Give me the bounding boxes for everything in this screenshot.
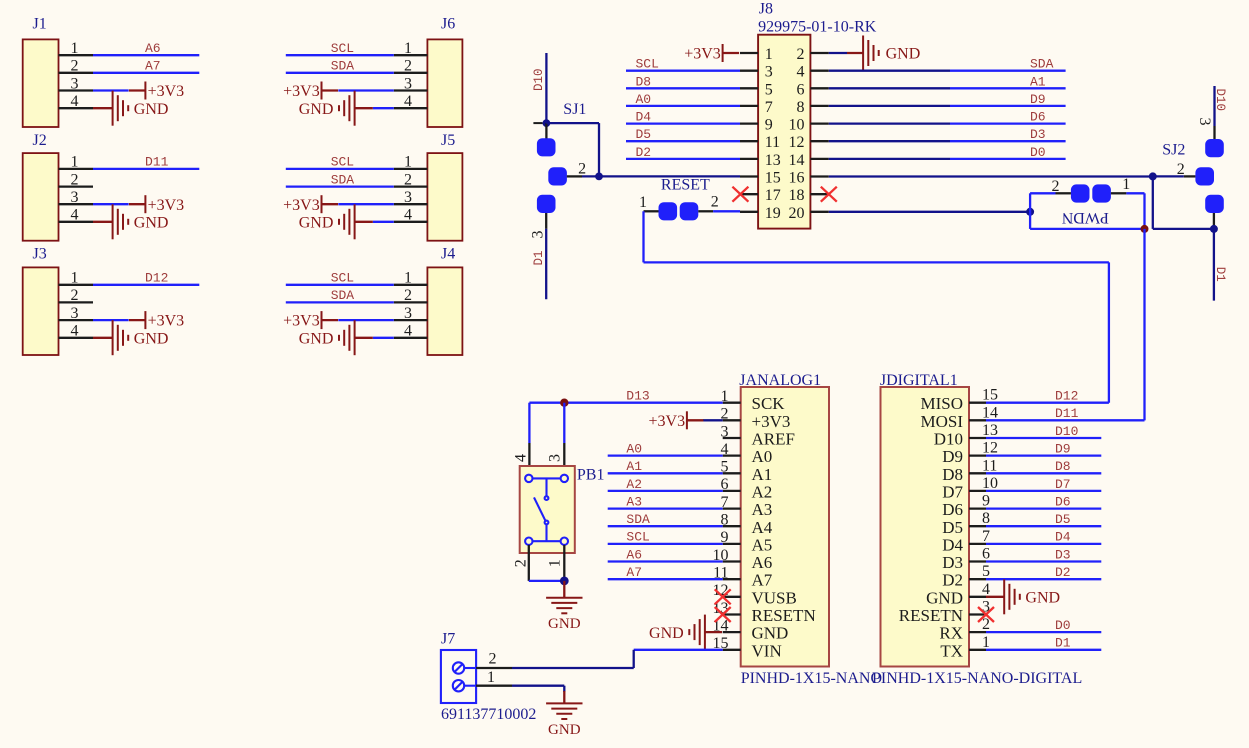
wire D8 (J8 pin 5) <box>626 87 740 89</box>
svg-text:4: 4 <box>797 64 805 81</box>
svg-text:PB1: PB1 <box>577 467 605 484</box>
svg-text:D0: D0 <box>1055 618 1071 633</box>
supply +3V3 (J8 pin 1) <box>684 44 739 63</box>
supply +3V3 (J3 pin 3) <box>129 311 184 330</box>
svg-text:1: 1 <box>71 154 79 171</box>
svg-text:14: 14 <box>982 404 998 421</box>
svg-text:J1: J1 <box>33 15 47 32</box>
svg-text:D6: D6 <box>1055 494 1071 509</box>
svg-text:1: 1 <box>1122 176 1130 193</box>
svg-text:3: 3 <box>765 64 773 81</box>
svg-text:GND: GND <box>752 624 789 643</box>
wire A1 (J8 pin 6) <box>829 87 950 89</box>
supply +3V3 (J1 pin 3) <box>129 82 184 101</box>
svg-text:4: 4 <box>71 207 79 224</box>
svg-text:+3V3: +3V3 <box>283 197 320 214</box>
SJ2 pad middle stub <box>1184 175 1196 177</box>
svg-text:15: 15 <box>765 170 781 187</box>
svg-text:D0: D0 <box>1030 145 1046 160</box>
SJ1 pad 2 stub <box>567 175 582 177</box>
wire D11 (JDIGITAL1 MOSI) <box>986 419 1145 421</box>
junction (PWDN left) <box>1026 208 1034 216</box>
svg-text:A0: A0 <box>636 92 652 107</box>
supply +3V3 (J6 pin 3) <box>283 82 338 101</box>
svg-text:D11: D11 <box>1055 406 1079 421</box>
wire +3V3 (J6 pin 3) <box>338 89 394 91</box>
svg-text:D1: D1 <box>1055 636 1071 651</box>
svg-text:D2: D2 <box>942 571 963 590</box>
PB1 pin 3 stub <box>563 443 565 475</box>
svg-text:D8: D8 <box>1055 459 1071 474</box>
wire RESET pad2 to J8 pin 19 <box>713 210 740 212</box>
wire SDA (JANALOG1 pin 8) <box>608 525 723 527</box>
wire D9 (JDIGITAL1 D9) <box>986 454 1101 456</box>
svg-text:SDA: SDA <box>331 59 355 74</box>
connector J3 <box>23 246 93 356</box>
svg-text:A6: A6 <box>626 547 642 562</box>
wire J8 pin 16 to SJ2 <box>829 175 1153 177</box>
wire D4 (J8 pin 9) <box>626 122 740 124</box>
wire D10 (JDIGITAL1 D10) <box>986 437 1101 439</box>
svg-text:13: 13 <box>982 422 998 439</box>
svg-text:12: 12 <box>789 134 805 151</box>
svg-text:2: 2 <box>1052 178 1060 195</box>
svg-text:2: 2 <box>578 160 586 177</box>
wire A7 (JANALOG1 pin 11) <box>608 578 723 580</box>
wire +3V3 (J4 pin 3) <box>338 319 394 321</box>
wire D10 (to SJ1 pin 1) <box>545 53 547 123</box>
wire +3V3 (J2 pin 3) <box>93 203 129 205</box>
wire SCL (J5 pin 1) <box>286 168 394 170</box>
connector JANALOG1 <box>713 372 883 687</box>
svg-text:PINHD-1X15-NANO-DIGITAL: PINHD-1X15-NANO-DIGITAL <box>872 670 1082 687</box>
svg-text:D6: D6 <box>942 500 963 519</box>
wire +3V3 (J5 pin 3) <box>338 203 394 205</box>
wire VIN net (J7 pin 2 to JANALOG1 VIN) <box>512 667 634 669</box>
svg-text:SCL: SCL <box>626 530 649 545</box>
svg-text:VIN: VIN <box>752 641 782 660</box>
no-connect X (JANALOG1 pin 12 VUSB) <box>715 589 731 604</box>
RESET pad 2 stub <box>698 210 713 212</box>
svg-text:1: 1 <box>404 40 412 57</box>
svg-text:2: 2 <box>711 193 719 210</box>
svg-text:D10: D10 <box>934 430 963 449</box>
svg-text:+3V3: +3V3 <box>148 313 185 330</box>
PWDN pad 1 <box>1092 184 1111 202</box>
svg-text:D13: D13 <box>626 389 649 404</box>
junction (SJ1 pin 2 net) <box>595 173 603 181</box>
wire SJ1 net to J8 pin 15 <box>582 175 599 177</box>
SJ2 pad bottom <box>1205 195 1224 213</box>
svg-text:4: 4 <box>71 93 79 110</box>
svg-text:D4: D4 <box>1055 530 1071 545</box>
svg-text:D7: D7 <box>942 482 963 501</box>
svg-text:A4: A4 <box>752 518 773 537</box>
wire D9 (J8 pin 8) <box>829 105 950 107</box>
svg-text:2: 2 <box>71 171 79 188</box>
SJ2 pad top <box>1205 139 1224 157</box>
wire D3 (J8 pin 12) <box>829 140 950 142</box>
junction dark red (PWDN bottom right) <box>1141 225 1149 233</box>
wire SJ2 net to junction <box>1153 175 1184 177</box>
svg-text:D5: D5 <box>1055 512 1071 527</box>
svg-text:7: 7 <box>982 528 990 545</box>
svg-text:15: 15 <box>982 387 998 404</box>
svg-text:D3: D3 <box>942 553 963 572</box>
wire D7 (JDIGITAL1 D7) <box>986 490 1101 492</box>
svg-text:A7: A7 <box>626 565 642 580</box>
svg-text:A0: A0 <box>752 447 773 466</box>
ground GND (J2 pin 4) <box>93 204 168 239</box>
svg-text:SDA: SDA <box>626 512 650 527</box>
svg-text:PWDN: PWDN <box>1061 209 1109 226</box>
svg-text:A1: A1 <box>1030 74 1046 89</box>
svg-text:D11: D11 <box>145 155 169 170</box>
svg-text:J8: J8 <box>759 1 773 18</box>
svg-text:3: 3 <box>71 305 79 322</box>
wire D0 (JDIGITAL1 RX) <box>986 631 1101 633</box>
svg-text:4: 4 <box>982 581 990 598</box>
svg-text:SCL: SCL <box>331 271 354 286</box>
wire SJ1 pin1 to pad <box>545 123 547 138</box>
svg-text:2: 2 <box>404 58 412 75</box>
wire D1 (SJ1 pin 3) <box>545 229 547 299</box>
svg-text:J2: J2 <box>33 132 47 149</box>
SJ2 pad 3 stub (top) <box>1213 126 1215 139</box>
svg-text:1: 1 <box>639 194 647 211</box>
wire +3V3 (J1 pin 3) <box>93 89 129 91</box>
svg-text:D2: D2 <box>636 145 652 160</box>
svg-text:SCK: SCK <box>752 394 786 413</box>
svg-text:RESET: RESET <box>661 177 710 194</box>
svg-text:GND: GND <box>548 616 581 632</box>
svg-text:J7: J7 <box>441 631 455 648</box>
wire PB1 pin 4 up <box>528 403 530 443</box>
wire SCL (JANALOG1 pin 9) <box>608 543 723 545</box>
ground GND (JANALOG1 pin 14) <box>649 615 722 650</box>
wire D5 (JDIGITAL1 D5) <box>986 525 1101 527</box>
svg-text:D8: D8 <box>942 465 963 484</box>
svg-text:A7: A7 <box>145 59 161 74</box>
svg-text:GND: GND <box>886 46 921 63</box>
wire SCL (J8 pin 3) <box>626 70 740 72</box>
svg-text:VUSB: VUSB <box>752 588 797 607</box>
svg-text:2: 2 <box>71 58 79 75</box>
wire D3 (JDIGITAL1 D3) <box>986 560 1101 562</box>
svg-text:SCL: SCL <box>331 41 354 56</box>
svg-text:J4: J4 <box>441 246 455 263</box>
svg-text:D9: D9 <box>942 447 963 466</box>
SJ1 pad 3 stub <box>545 213 547 229</box>
wire +3V3 (JANALOG1 pin 2) <box>703 419 723 421</box>
wire D11 vertical (PWDN to JDIGITAL MOSI) <box>1143 229 1145 421</box>
wire D12 (JDIGITAL1 MISO) <box>986 402 1109 404</box>
svg-text:1: 1 <box>547 559 564 567</box>
supply +3V3 (J5 pin 3) <box>283 195 338 214</box>
svg-text:D2: D2 <box>1055 565 1071 580</box>
svg-text:D7: D7 <box>1055 477 1071 492</box>
svg-text:8: 8 <box>797 99 805 116</box>
svg-text:A0: A0 <box>626 441 642 456</box>
svg-text:D12: D12 <box>145 271 168 286</box>
connector J4 <box>394 246 463 356</box>
svg-text:AREF: AREF <box>752 430 795 449</box>
pushbutton PB1 <box>520 466 605 553</box>
svg-text:GND: GND <box>299 101 334 118</box>
svg-text:A6: A6 <box>752 553 773 572</box>
svg-text:SJ2: SJ2 <box>1162 142 1185 159</box>
svg-text:4: 4 <box>512 454 529 462</box>
svg-text:SDA: SDA <box>1030 57 1054 72</box>
wire D8 (JDIGITAL1 D8) <box>986 472 1101 474</box>
svg-text:1: 1 <box>982 634 990 651</box>
svg-text:8: 8 <box>982 510 990 527</box>
svg-text:GND: GND <box>926 588 963 607</box>
svg-text:3: 3 <box>404 305 412 322</box>
svg-text:2: 2 <box>489 651 497 668</box>
svg-text:3: 3 <box>71 75 79 92</box>
svg-text:11: 11 <box>765 134 780 151</box>
svg-text:RX: RX <box>939 624 963 643</box>
svg-text:D1: D1 <box>1213 267 1227 282</box>
PWDN pad 2 stub <box>1056 192 1071 194</box>
svg-text:1: 1 <box>71 40 79 57</box>
wire SCL (J6 pin 1) <box>286 54 394 56</box>
svg-text:D4: D4 <box>942 535 963 554</box>
svg-text:11: 11 <box>982 457 997 474</box>
svg-text:6: 6 <box>797 81 805 98</box>
wire GND (J4 pin 4) <box>373 337 394 339</box>
svg-text:J5: J5 <box>441 132 455 149</box>
no-connect X (JANALOG1 pin 13 RESETN) <box>715 607 731 622</box>
svg-text:3: 3 <box>71 189 79 206</box>
svg-text:SCL: SCL <box>636 57 659 72</box>
wire A6 (J1 pin 1) <box>93 54 199 56</box>
svg-text:A1: A1 <box>752 465 773 484</box>
ground GND (J5 pin 4) <box>299 204 373 239</box>
svg-text:J6: J6 <box>441 15 455 32</box>
svg-text:D3: D3 <box>1055 547 1071 562</box>
svg-text:2: 2 <box>404 171 412 188</box>
PB1 pin 4 stub <box>528 443 530 475</box>
svg-text:D9: D9 <box>1030 92 1046 107</box>
svg-text:+3V3: +3V3 <box>752 412 791 431</box>
svg-text:SJ1: SJ1 <box>563 101 586 118</box>
svg-text:J3: J3 <box>33 246 47 263</box>
supply +3V3 (J4 pin 3) <box>283 311 338 330</box>
supply +3V3 (JANALOG1 pin 2) <box>649 411 704 430</box>
svg-text:20: 20 <box>789 205 805 222</box>
SJ1 pad 1 <box>537 138 556 156</box>
svg-text:14: 14 <box>789 152 805 169</box>
PB1 pin 2 stub down <box>528 545 530 581</box>
wire GND (J6 pin 4) <box>373 107 394 109</box>
svg-text:A2: A2 <box>752 482 773 501</box>
svg-text:PINHD-1X15-NANO: PINHD-1X15-NANO <box>741 670 882 687</box>
svg-text:12: 12 <box>982 440 998 457</box>
wire +3V3 (J3 pin 3) <box>93 319 129 321</box>
junction (SJ2 bottom) <box>1210 225 1218 233</box>
no-connect X (J8 pin 17) <box>732 187 748 202</box>
wire SDA (J6 pin 2) <box>286 72 394 74</box>
svg-text:D3: D3 <box>1030 127 1046 142</box>
RESET pad 1 <box>659 202 678 220</box>
svg-text:GND: GND <box>134 101 169 118</box>
wire SJ1 pin1 net over to junction <box>546 122 599 124</box>
svg-text:17: 17 <box>765 187 781 204</box>
junction (SJ2 net) <box>1149 172 1157 180</box>
svg-text:929975-01-10-RK: 929975-01-10-RK <box>758 18 877 35</box>
wire D2 (J8 pin 13) <box>626 158 740 160</box>
svg-text:A1: A1 <box>626 459 642 474</box>
wire A0 (JANALOG1 pin 4) <box>608 454 723 456</box>
svg-text:4: 4 <box>404 323 412 340</box>
svg-text:3: 3 <box>404 75 412 92</box>
wire GND net (J7 pin 1) <box>512 685 564 687</box>
svg-text:+3V3: +3V3 <box>148 197 185 214</box>
svg-text:2: 2 <box>797 46 805 63</box>
wire D1 (JDIGITAL1 TX) <box>986 649 1101 651</box>
svg-text:1: 1 <box>404 270 412 287</box>
svg-text:18: 18 <box>789 187 805 204</box>
svg-text:1: 1 <box>765 46 773 63</box>
svg-text:A7: A7 <box>752 571 773 590</box>
svg-text:3: 3 <box>721 423 729 440</box>
svg-text:5: 5 <box>982 563 990 580</box>
ground GND (J4 pin 4) <box>299 320 373 355</box>
wire D6 (J8 pin 10) <box>829 122 950 124</box>
svg-text:D5: D5 <box>942 518 963 537</box>
svg-text:D10: D10 <box>1055 424 1078 439</box>
svg-text:A3: A3 <box>752 500 773 519</box>
svg-text:A5: A5 <box>752 535 773 554</box>
svg-text:MOSI: MOSI <box>920 412 963 431</box>
SJ1 pad 3 <box>537 195 556 213</box>
wire VIN (JANALOG1 pin 15) <box>634 649 723 651</box>
svg-text:GND: GND <box>649 625 684 642</box>
svg-text:SDA: SDA <box>331 172 355 187</box>
svg-text:D4: D4 <box>636 110 652 125</box>
connector J5 <box>394 132 463 241</box>
svg-text:+3V3: +3V3 <box>649 413 686 430</box>
SJ1 pin 1 tick <box>533 122 542 124</box>
PB1 pin 1 stub down <box>563 545 565 581</box>
no-connect X (J8 pin 18) <box>821 187 837 202</box>
svg-text:2: 2 <box>512 559 529 567</box>
svg-text:MISO: MISO <box>920 394 963 413</box>
svg-text:+3V3: +3V3 <box>283 83 320 100</box>
wire D0 (J8 pin 14) <box>829 158 950 160</box>
wire PWDN loop <box>1030 193 1144 229</box>
connector JDIGITAL1 <box>872 372 1082 687</box>
svg-text:1: 1 <box>487 669 495 686</box>
svg-text:D8: D8 <box>636 74 652 89</box>
svg-text:3: 3 <box>404 189 412 206</box>
svg-text:16: 16 <box>789 170 805 187</box>
svg-text:D1: D1 <box>532 250 546 265</box>
svg-text:4: 4 <box>404 207 412 224</box>
svg-text:691137710002: 691137710002 <box>441 706 536 723</box>
ground GND (PB1) <box>546 581 582 632</box>
svg-text:GND: GND <box>299 214 334 231</box>
svg-text:GND: GND <box>134 330 169 347</box>
RESET pad 1 stub <box>644 210 659 212</box>
wire D10 (SJ2 top) <box>1213 86 1215 126</box>
svg-text:TX: TX <box>940 641 963 660</box>
svg-text:A2: A2 <box>626 477 642 492</box>
svg-text:A3: A3 <box>626 494 642 509</box>
wire A6 (JANALOG1 pin 10) <box>608 560 723 562</box>
svg-text:19: 19 <box>765 205 781 222</box>
junction (SJ1 pin 1) <box>543 119 551 127</box>
svg-text:4: 4 <box>71 323 79 340</box>
SJ2 pad middle <box>1195 167 1214 185</box>
wire GND (J5 pin 4) <box>373 221 394 223</box>
J7 pin 1 stub <box>476 685 512 687</box>
wire A0 (J8 pin 7) <box>626 105 740 107</box>
SJ2 pad bottom stub <box>1213 213 1215 229</box>
wire D2 (JDIGITAL1 D2) <box>986 578 1101 580</box>
ground GND (J3 pin 4) <box>93 320 168 355</box>
wire D4 (JDIGITAL1 D4) <box>986 543 1101 545</box>
svg-text:RESETN: RESETN <box>752 606 816 625</box>
svg-text:GND: GND <box>548 722 581 738</box>
wire SCL (J4 pin 1) <box>286 284 394 286</box>
supply +3V3 (J2 pin 3) <box>129 195 184 214</box>
no-connect X (JDIGITAL1 pin 3 RESETN) <box>978 607 994 622</box>
svg-text:D12: D12 <box>1055 389 1078 404</box>
svg-text:10: 10 <box>789 117 805 134</box>
svg-text:9: 9 <box>982 493 990 510</box>
svg-text:13: 13 <box>765 152 781 169</box>
RESET pad 2 <box>680 202 699 220</box>
svg-text:4: 4 <box>404 93 412 110</box>
wire D5 (J8 pin 11) <box>626 140 740 142</box>
svg-text:+3V3: +3V3 <box>148 83 185 100</box>
wire A1 (JANALOG1 pin 5) <box>608 472 723 474</box>
svg-text:3: 3 <box>1196 118 1213 126</box>
wire D13 (PB1 to JANALOG1 pin 1) <box>529 402 722 404</box>
wire D6 (JDIGITAL1 D6) <box>986 507 1101 509</box>
svg-text:D6: D6 <box>1030 110 1046 125</box>
svg-text:GND: GND <box>134 214 169 231</box>
svg-text:D10: D10 <box>532 68 546 91</box>
wire A7 (J1 pin 2) <box>93 72 199 74</box>
svg-text:GND: GND <box>1025 589 1060 606</box>
svg-text:+3V3: +3V3 <box>684 46 721 63</box>
svg-text:SDA: SDA <box>331 288 355 303</box>
wire A3 (JANALOG1 pin 7) <box>608 507 723 509</box>
wire D1 (SJ2 bottom) <box>1213 229 1215 301</box>
junction (PB1 ground) <box>560 577 569 586</box>
wire PB1 pin 2 to junction <box>529 580 565 582</box>
ground GND (J6 pin 4) <box>299 91 373 126</box>
connector J1 <box>23 15 93 127</box>
svg-text:D9: D9 <box>1055 441 1071 456</box>
connector J7 <box>441 631 537 724</box>
PWDN pad 2 <box>1071 184 1090 202</box>
svg-text:1: 1 <box>71 270 79 287</box>
wire SJ2 loop down <box>1152 176 1154 229</box>
svg-text:1: 1 <box>404 154 412 171</box>
svg-text:+3V3: +3V3 <box>283 313 320 330</box>
svg-text:2: 2 <box>71 287 79 304</box>
svg-text:9: 9 <box>765 117 773 134</box>
svg-text:10: 10 <box>982 475 998 492</box>
svg-text:GND: GND <box>299 330 334 347</box>
ground GND (J7 pin 1) <box>546 691 582 738</box>
svg-text:RESETN: RESETN <box>899 606 963 625</box>
